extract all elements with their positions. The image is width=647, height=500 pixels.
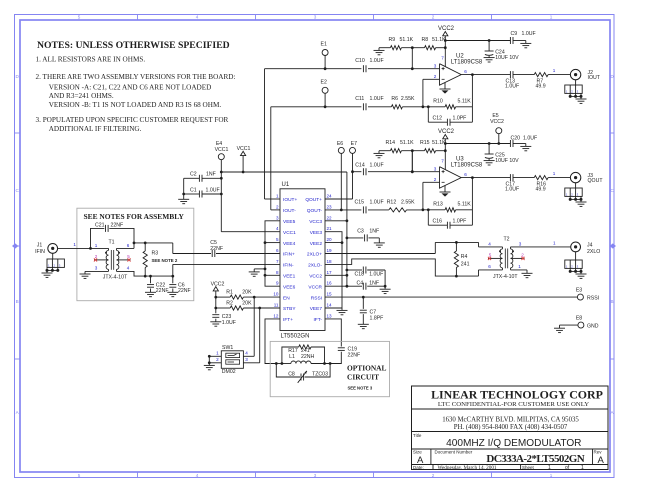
svg-text:24: 24 bbox=[327, 194, 333, 199]
svg-text:3: 3 bbox=[434, 63, 437, 68]
svg-text:20K: 20K bbox=[242, 290, 252, 296]
svg-text:10UF 10V: 10UF 10V bbox=[495, 55, 519, 61]
svg-text:VCC2: VCC2 bbox=[438, 26, 455, 32]
svg-text:1.0UF: 1.0UF bbox=[505, 187, 519, 193]
svg-text:R3: R3 bbox=[152, 251, 159, 257]
svg-text:R8: R8 bbox=[422, 37, 429, 43]
svg-text:Document Number: Document Number bbox=[435, 450, 473, 455]
svg-text:R17: R17 bbox=[288, 348, 298, 354]
svg-text:8: 8 bbox=[276, 270, 279, 275]
svg-text:A: A bbox=[598, 455, 605, 466]
svg-text:R14: R14 bbox=[386, 140, 396, 146]
svg-text:J1: J1 bbox=[37, 243, 43, 249]
svg-text:GND: GND bbox=[587, 323, 599, 329]
svg-text:1.0UF: 1.0UF bbox=[369, 271, 383, 277]
svg-text:2: 2 bbox=[276, 204, 279, 209]
svg-text:R12: R12 bbox=[387, 200, 397, 206]
svg-text:1.0UF: 1.0UF bbox=[370, 96, 384, 102]
svg-text:R13: R13 bbox=[433, 202, 443, 208]
svg-text:C3: C3 bbox=[357, 229, 364, 235]
svg-text:1.0UF: 1.0UF bbox=[505, 84, 519, 90]
svg-text:1.0UF: 1.0UF bbox=[523, 135, 537, 141]
svg-text:Wednesday, March 14, 2001: Wednesday, March 14, 2001 bbox=[438, 465, 497, 471]
svg-text:4: 4 bbox=[127, 266, 130, 271]
svg-text:10: 10 bbox=[273, 292, 279, 297]
svg-text:5: 5 bbox=[489, 252, 492, 257]
svg-text:6: 6 bbox=[464, 172, 467, 177]
svg-text:7: 7 bbox=[441, 158, 444, 163]
svg-text:2.55K: 2.55K bbox=[401, 96, 415, 102]
svg-text:JTX-4-10T: JTX-4-10T bbox=[103, 274, 128, 280]
svg-text:1.8PF: 1.8PF bbox=[370, 316, 384, 322]
svg-text:of: of bbox=[565, 465, 570, 471]
svg-text:DM02: DM02 bbox=[222, 369, 236, 375]
svg-text:Size: Size bbox=[413, 450, 422, 455]
svg-text:3: 3 bbox=[519, 241, 522, 246]
svg-text:C2: C2 bbox=[190, 172, 197, 178]
svg-text:1.0UF: 1.0UF bbox=[206, 187, 220, 193]
svg-text:3: 3 bbox=[95, 266, 98, 271]
svg-text:VCC2: VCC2 bbox=[438, 129, 455, 135]
svg-text:20: 20 bbox=[327, 237, 333, 242]
svg-text:11: 11 bbox=[274, 303, 279, 308]
svg-text:VCC2: VCC2 bbox=[309, 274, 322, 280]
svg-text:SEE NOTE 2: SEE NOTE 2 bbox=[152, 258, 178, 263]
svg-text:IOUT: IOUT bbox=[588, 75, 601, 81]
svg-text:3: 3 bbox=[314, 473, 317, 478]
svg-text:QOUT: QOUT bbox=[588, 178, 604, 184]
svg-text:21: 21 bbox=[327, 226, 333, 231]
svg-text:2XLO: 2XLO bbox=[587, 249, 600, 255]
svg-text:2: 2 bbox=[95, 254, 98, 259]
svg-text:OPTIONAL: OPTIONAL bbox=[347, 363, 386, 372]
svg-text:T2: T2 bbox=[503, 237, 509, 243]
svg-text:C16: C16 bbox=[433, 219, 443, 225]
svg-text:1: 1 bbox=[95, 243, 98, 248]
svg-text:3: 3 bbox=[245, 357, 248, 362]
svg-text:C11: C11 bbox=[355, 96, 364, 102]
svg-text:VEE2: VEE2 bbox=[310, 241, 323, 247]
svg-text:AND R3=241 OHMS.: AND R3=241 OHMS. bbox=[49, 92, 114, 100]
svg-text:5: 5 bbox=[127, 254, 130, 259]
svg-text:20K: 20K bbox=[242, 300, 252, 306]
svg-text:VEE4: VEE4 bbox=[283, 241, 296, 247]
svg-text:15: 15 bbox=[327, 292, 333, 297]
svg-text:R15: R15 bbox=[420, 140, 430, 146]
svg-text:6: 6 bbox=[464, 69, 467, 74]
svg-text:6: 6 bbox=[276, 248, 279, 253]
svg-text:STBY: STBY bbox=[283, 306, 296, 312]
svg-text:4: 4 bbox=[196, 473, 199, 478]
svg-text:3. POPULATED UPON SPECIFIC C: 3. POPULATED UPON SPECIFIC CUSTOMER REQU… bbox=[36, 116, 229, 124]
svg-text:IFIN+: IFIN+ bbox=[283, 252, 295, 258]
svg-text:JTX-4-10T: JTX-4-10T bbox=[493, 274, 518, 280]
svg-text:4: 4 bbox=[276, 226, 279, 231]
svg-text:5: 5 bbox=[78, 473, 81, 478]
svg-text:VEE7: VEE7 bbox=[310, 306, 323, 312]
svg-text:VEE1: VEE1 bbox=[283, 274, 296, 280]
svg-text:7: 7 bbox=[441, 55, 444, 60]
svg-text:1: 1 bbox=[276, 194, 279, 199]
svg-text:4: 4 bbox=[488, 241, 491, 246]
svg-text:22: 22 bbox=[327, 215, 333, 220]
svg-text:C1: C1 bbox=[190, 187, 197, 193]
svg-text:LINEAR TECHNOLOGY CORP: LINEAR TECHNOLOGY CORP bbox=[431, 388, 603, 402]
svg-text:2XLO-: 2XLO- bbox=[308, 263, 322, 269]
svg-text:2: 2 bbox=[434, 177, 437, 182]
svg-text:1: 1 bbox=[553, 68, 556, 73]
svg-text:B: B bbox=[16, 299, 19, 304]
svg-text:VEE3: VEE3 bbox=[310, 230, 323, 236]
svg-text:22NF: 22NF bbox=[348, 352, 361, 358]
svg-text:51.1K: 51.1K bbox=[432, 140, 446, 146]
svg-text:VCCR: VCCR bbox=[308, 284, 322, 290]
svg-text:E7: E7 bbox=[351, 141, 357, 147]
svg-text:9: 9 bbox=[276, 281, 279, 286]
svg-text:1: 1 bbox=[553, 241, 556, 246]
svg-text:51.1K: 51.1K bbox=[400, 140, 414, 146]
svg-text:DC333A-2*LT5502GN: DC333A-2*LT5502GN bbox=[486, 453, 584, 465]
svg-text:1.0PF: 1.0PF bbox=[453, 116, 467, 122]
svg-text:1.0UF: 1.0UF bbox=[370, 58, 384, 64]
svg-text:1: 1 bbox=[553, 171, 556, 176]
svg-text:1.0UF: 1.0UF bbox=[370, 162, 384, 168]
svg-text:1: 1 bbox=[550, 15, 553, 20]
svg-text:C21: C21 bbox=[95, 223, 105, 229]
svg-text:5.11K: 5.11K bbox=[458, 202, 472, 208]
svg-text:49.9: 49.9 bbox=[536, 84, 546, 90]
svg-text:1.0UF: 1.0UF bbox=[370, 200, 384, 206]
svg-text:6: 6 bbox=[488, 264, 491, 269]
svg-text:Date:: Date: bbox=[413, 465, 424, 470]
svg-text:1: 1 bbox=[581, 465, 584, 471]
svg-text:4: 4 bbox=[196, 15, 199, 20]
svg-text:EN: EN bbox=[283, 295, 290, 301]
svg-text:SEE NOTES FOR ASSEMBLY: SEE NOTES FOR ASSEMBLY bbox=[84, 212, 185, 221]
svg-text:2: 2 bbox=[434, 74, 437, 79]
svg-text:VCC1: VCC1 bbox=[237, 146, 251, 152]
svg-text:LTC CONFIDENTIAL-FOR CUSTOMER: LTC CONFIDENTIAL-FOR CUSTOMER USE ONLY bbox=[438, 401, 589, 408]
svg-text:1: 1 bbox=[216, 350, 219, 355]
svg-text:2: 2 bbox=[432, 473, 435, 478]
svg-text:C9: C9 bbox=[511, 31, 518, 37]
svg-text:E1: E1 bbox=[321, 42, 327, 48]
svg-text:Rev: Rev bbox=[594, 450, 603, 455]
svg-text:R9: R9 bbox=[389, 37, 396, 43]
svg-text:1NF: 1NF bbox=[369, 229, 379, 235]
svg-text:E3: E3 bbox=[576, 287, 582, 293]
svg-text:2: 2 bbox=[521, 252, 524, 257]
svg-text:QOUT+: QOUT+ bbox=[305, 197, 322, 203]
svg-text:3: 3 bbox=[434, 166, 437, 171]
svg-text:C12: C12 bbox=[433, 116, 443, 122]
svg-text:1: 1 bbox=[518, 264, 521, 269]
svg-text:1: 1 bbox=[550, 473, 553, 478]
svg-text:SEE NOTE 3: SEE NOTE 3 bbox=[348, 386, 373, 391]
svg-text:3: 3 bbox=[314, 15, 317, 20]
svg-text:2XLO+: 2XLO+ bbox=[307, 252, 322, 258]
svg-text:LT1809CS8: LT1809CS8 bbox=[451, 59, 483, 65]
svg-text:7: 7 bbox=[276, 259, 279, 264]
svg-text:T1: T1 bbox=[108, 240, 114, 246]
svg-text:U1: U1 bbox=[282, 182, 290, 188]
svg-text:241: 241 bbox=[301, 348, 310, 354]
svg-text:VCC1: VCC1 bbox=[283, 230, 296, 236]
svg-text:22NF: 22NF bbox=[156, 288, 169, 294]
svg-text:12: 12 bbox=[273, 313, 279, 318]
svg-text:14: 14 bbox=[327, 303, 333, 308]
svg-text:R6: R6 bbox=[391, 96, 398, 102]
svg-text:1.0PF: 1.0PF bbox=[453, 219, 467, 225]
svg-text:23: 23 bbox=[327, 204, 333, 209]
svg-text:1: 1 bbox=[548, 465, 551, 471]
svg-text:LT5502GN: LT5502GN bbox=[281, 334, 310, 340]
svg-text:C4: C4 bbox=[357, 280, 364, 286]
svg-text:QOUT-: QOUT- bbox=[307, 208, 323, 214]
svg-text:E8: E8 bbox=[576, 316, 582, 322]
svg-text:22NH: 22NH bbox=[301, 354, 315, 360]
svg-text:5.11K: 5.11K bbox=[458, 99, 472, 105]
svg-text:C18: C18 bbox=[355, 271, 365, 277]
svg-text:16: 16 bbox=[327, 281, 333, 286]
svg-text:VCC3: VCC3 bbox=[309, 219, 322, 225]
svg-text:Title: Title bbox=[413, 433, 422, 438]
svg-text:C8: C8 bbox=[288, 372, 295, 378]
svg-text:E2: E2 bbox=[321, 79, 327, 85]
svg-text:3: 3 bbox=[276, 215, 279, 220]
svg-text:1.0UF: 1.0UF bbox=[222, 320, 236, 326]
svg-text:22NF: 22NF bbox=[111, 223, 124, 229]
svg-text:5: 5 bbox=[78, 15, 81, 20]
svg-text:VEE6: VEE6 bbox=[283, 284, 296, 290]
svg-text:VCC2: VCC2 bbox=[490, 119, 504, 125]
svg-text:R4: R4 bbox=[461, 254, 468, 260]
svg-text:R1: R1 bbox=[226, 290, 233, 296]
svg-text:IOUT-: IOUT- bbox=[283, 208, 296, 214]
svg-text:5: 5 bbox=[276, 237, 279, 242]
svg-text:C10: C10 bbox=[355, 58, 365, 64]
svg-text:RSSI: RSSI bbox=[311, 295, 322, 301]
svg-text:1: 1 bbox=[73, 242, 76, 247]
svg-text:J4: J4 bbox=[587, 243, 593, 249]
svg-text:22NF: 22NF bbox=[178, 288, 191, 294]
svg-text:VCC2: VCC2 bbox=[211, 281, 225, 287]
svg-text:10UF 10V: 10UF 10V bbox=[495, 158, 519, 164]
svg-text:L1: L1 bbox=[289, 354, 295, 360]
svg-text:6: 6 bbox=[127, 243, 130, 248]
svg-text:B: B bbox=[610, 299, 613, 304]
svg-text:IFIN-: IFIN- bbox=[283, 263, 294, 269]
svg-text:PH. (408) 954-8400 FAX (408): PH. (408) 954-8400 FAX (408) 434-0507 bbox=[454, 424, 568, 431]
svg-text:1NF: 1NF bbox=[369, 280, 379, 286]
svg-text:C14: C14 bbox=[355, 162, 365, 168]
svg-text:Sheet: Sheet bbox=[522, 465, 535, 470]
svg-text:VERSION -A: C21, C22 AND C6: VERSION -A: C21, C22 AND C6 ARE NOT LOAD… bbox=[49, 83, 212, 91]
svg-text:1630 McCARTHY BLVD. MILPITAS,: 1630 McCARTHY BLVD. MILPITAS, CA 95035 bbox=[442, 417, 579, 424]
svg-text:R2: R2 bbox=[226, 300, 233, 306]
svg-text:VCC1: VCC1 bbox=[215, 147, 229, 153]
svg-text:VERSION -B: T1 IS NOT LOADED: VERSION -B: T1 IS NOT LOADED AND R3 IS 6… bbox=[49, 101, 222, 109]
svg-text:C15: C15 bbox=[355, 200, 365, 206]
svg-text:TZC03: TZC03 bbox=[312, 372, 328, 378]
svg-text:SW1: SW1 bbox=[222, 345, 233, 351]
svg-text:R10: R10 bbox=[433, 99, 443, 105]
svg-text:IFIN: IFIN bbox=[35, 249, 45, 255]
svg-text:1NF: 1NF bbox=[206, 172, 216, 178]
svg-text:E6: E6 bbox=[337, 141, 343, 147]
svg-text:CIRCUIT: CIRCUIT bbox=[347, 373, 379, 382]
svg-text:17: 17 bbox=[327, 270, 333, 275]
svg-text:2.55K: 2.55K bbox=[401, 200, 415, 206]
svg-text:22NF: 22NF bbox=[210, 246, 223, 252]
svg-text:51.1K: 51.1K bbox=[432, 37, 446, 43]
svg-text:49.9: 49.9 bbox=[536, 187, 546, 193]
svg-text:241: 241 bbox=[461, 261, 470, 267]
svg-text:51.1K: 51.1K bbox=[400, 37, 414, 43]
svg-text:1. ALL RESISTORS ARE IN OHMS: 1. ALL RESISTORS ARE IN OHMS. bbox=[36, 56, 146, 64]
svg-text:C20: C20 bbox=[511, 135, 521, 141]
svg-text:IFT+: IFT+ bbox=[283, 317, 293, 323]
svg-text:ADDITIONAL IF FILTERING.: ADDITIONAL IF FILTERING. bbox=[49, 125, 142, 133]
svg-text:13: 13 bbox=[327, 313, 333, 318]
svg-text:400MHZ I/Q DEMODULATOR: 400MHZ I/Q DEMODULATOR bbox=[446, 438, 581, 449]
svg-text:1.0UF: 1.0UF bbox=[522, 31, 536, 37]
svg-text:2: 2 bbox=[216, 357, 219, 362]
svg-text:4: 4 bbox=[245, 350, 248, 355]
svg-text:NOTES: UNLESS OTHERWISE SPECIF: NOTES: UNLESS OTHERWISE SPECIFIED bbox=[37, 40, 230, 51]
svg-text:RSSI: RSSI bbox=[587, 295, 599, 301]
svg-text:2. THERE ARE TWO ASSEMBLY VE: 2. THERE ARE TWO ASSEMBLY VERSIONS FOR T… bbox=[36, 73, 236, 81]
svg-text:IFT-: IFT- bbox=[313, 317, 322, 323]
svg-text:IOUT+: IOUT+ bbox=[283, 197, 297, 203]
svg-text:2: 2 bbox=[432, 15, 435, 20]
svg-text:LT1809CS8: LT1809CS8 bbox=[451, 162, 483, 168]
svg-text:19: 19 bbox=[327, 248, 333, 253]
svg-text:VEE5: VEE5 bbox=[283, 219, 296, 225]
svg-text:18: 18 bbox=[327, 259, 333, 264]
